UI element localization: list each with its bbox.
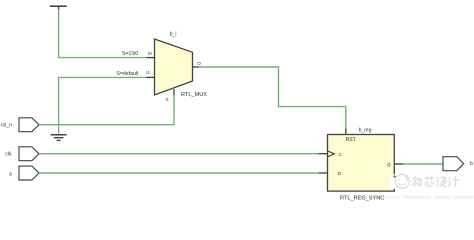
power symbol VCC [50, 6, 67, 9]
ground [51, 135, 67, 141]
pin RST [345, 128, 347, 134]
svg-text:S=1'b0: S=1'b0 [122, 51, 138, 57]
svg-text:rst_n: rst_n [1, 123, 12, 129]
wire clk to register C [39, 153, 319, 155]
svg-text:S=default: S=default [116, 71, 139, 77]
watermark text 新芯设计 [412, 176, 459, 187]
register U2 RTL_REG_SYNC [319, 127, 403, 201]
svg-text:RTL_MUX: RTL_MUX [181, 92, 207, 98]
svg-text:a: a [9, 172, 12, 178]
svg-text:clk: clk [5, 152, 12, 158]
svg-text:I0: I0 [148, 51, 152, 56]
wire power to mux I0 [59, 9, 147, 57]
svg-text:S: S [166, 97, 169, 102]
pin D [319, 172, 328, 174]
output port b [443, 157, 464, 171]
svg-text:b: b [470, 161, 473, 167]
wire register Q to output port b [403, 163, 443, 165]
pin C clock [319, 153, 328, 155]
svg-text:O: O [197, 61, 201, 66]
watermark faint bottom strip [345, 196, 474, 199]
input port clk [19, 147, 39, 161]
wire rst_n to mux S [39, 96, 174, 125]
svg-text:I1: I1 [146, 70, 150, 75]
watermark logo [390, 174, 411, 189]
wire ground to mux I1 [59, 77, 147, 133]
pin O [193, 66, 200, 68]
svg-text:RST: RST [346, 137, 356, 143]
pin Q [394, 163, 403, 165]
input port a [19, 166, 39, 180]
mux U1 RTL_MUX [146, 31, 207, 102]
input port rst_n [19, 118, 39, 132]
pin I0 [147, 57, 155, 59]
pin I1 [147, 76, 155, 78]
svg-text:RTL_REG_SYNC: RTL_REG_SYNC [340, 195, 384, 201]
svg-text:Q: Q [387, 162, 391, 167]
wire a to register D [39, 172, 319, 174]
wire mux O to register RST [199, 67, 345, 128]
pin S [173, 89, 175, 96]
svg-text:b_i: b_i [170, 31, 177, 37]
svg-text:b_reg: b_reg [359, 127, 372, 133]
